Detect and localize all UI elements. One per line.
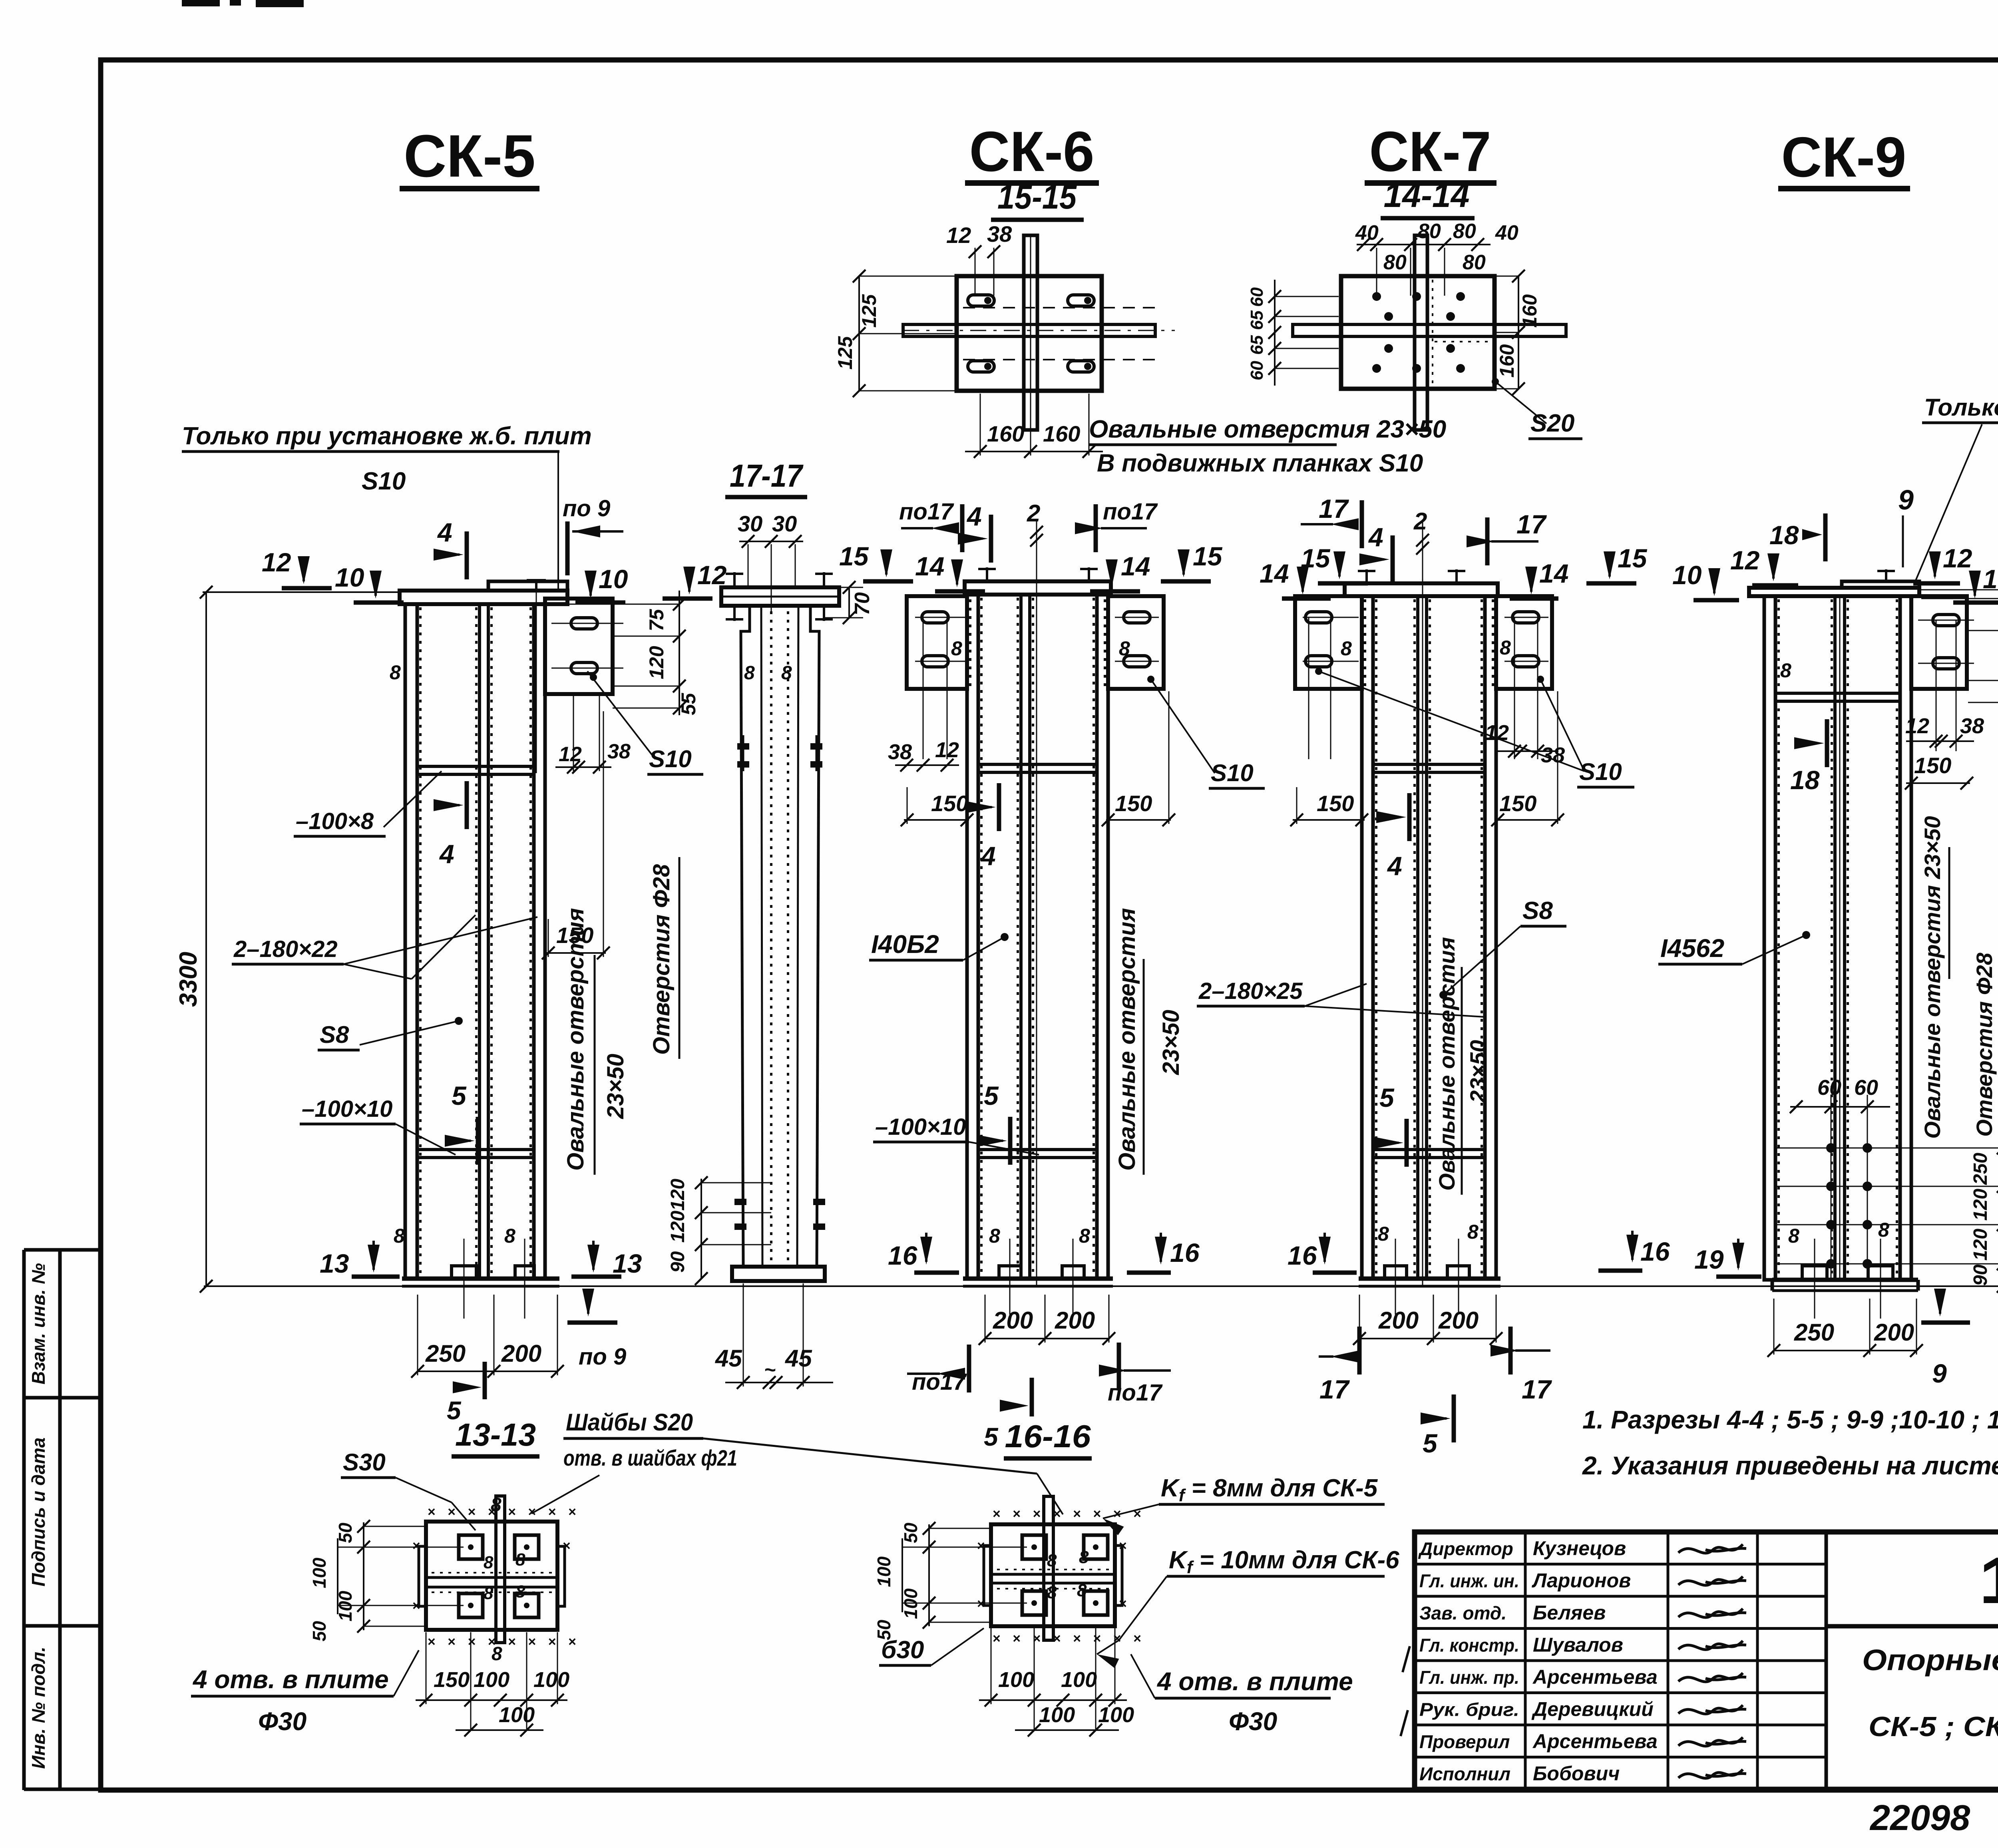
svg-text:Инв. № подл.: Инв. № подл. — [28, 1647, 49, 1769]
SK-7 cap bolts — [1365, 569, 1368, 583]
svg-text:Опорные стойки: Опорные стойки — [1862, 1643, 1998, 1677]
SK-5 bottom dim 250 200 — [418, 1371, 557, 1372]
SK-6 stiffener bottom — [978, 1150, 1097, 1158]
svg-text:12: 12 — [1730, 545, 1760, 575]
15-15 slotted holes — [968, 295, 994, 306]
svg-text:8: 8 — [484, 1553, 494, 1572]
svg-text:10: 10 — [599, 564, 628, 594]
svg-text:~: ~ — [764, 1359, 776, 1381]
svg-text:30: 30 — [772, 511, 797, 536]
svg-text:S30: S30 — [343, 1449, 386, 1476]
svg-text:Овальные отверстия: Овальные отверстия — [563, 908, 589, 1171]
svg-text:4: 4 — [1387, 851, 1402, 881]
svg-text:18: 18 — [1769, 520, 1799, 550]
svg-text:S20: S20 — [1530, 410, 1574, 437]
svg-text:120: 120 — [645, 646, 668, 679]
SK-6 bottom dim 200 200 — [985, 1338, 1109, 1339]
svg-text:Беляев: Беляев — [1533, 1601, 1606, 1624]
svg-text:Отверстия Ф28: Отверстия Ф28 — [649, 864, 675, 1055]
svg-text:1. Разрезы 4-4 ; 5-5 ; 9-9 ;: 1. Разрезы 4-4 ; 5-5 ; 9-9 ;10-10 ; 12-1… — [1582, 1405, 1998, 1434]
svg-text:Шувалов: Шувалов — [1533, 1634, 1623, 1656]
svg-text:4: 4 — [437, 517, 452, 547]
SK-9 lower bolt grid lines — [1831, 1095, 1832, 1279]
svg-text:СК-5: СК-5 — [404, 122, 535, 189]
svg-text:200: 200 — [1438, 1307, 1479, 1334]
svg-text:5: 5 — [984, 1081, 999, 1110]
svg-text:отв. в шайбах ф21: отв. в шайбах ф21 — [563, 1445, 737, 1470]
svg-text:8: 8 — [1878, 1219, 1889, 1241]
svg-text:4: 4 — [980, 841, 996, 871]
svg-text:8: 8 — [1788, 1225, 1799, 1247]
16-16 vertical bar — [1044, 1496, 1053, 1640]
svg-text:100: 100 — [533, 1668, 569, 1692]
svg-text:125: 125 — [858, 294, 880, 328]
svg-text:12: 12 — [935, 738, 959, 762]
svg-text:I40Б2: I40Б2 — [871, 930, 939, 959]
SK-6 cap bolts — [986, 567, 988, 581]
svg-text:Ларионов: Ларионов — [1532, 1570, 1631, 1592]
SK-6 left gusset slots — [922, 612, 948, 623]
svg-text:150: 150 — [1115, 791, 1152, 816]
SK-9 gusset slots — [1933, 615, 1959, 626]
svg-text:Ф30: Ф30 — [1229, 1707, 1277, 1736]
17-17 top plate — [721, 587, 839, 606]
15-15 dim 125 125 left — [858, 276, 860, 391]
svg-text:8: 8 — [989, 1225, 1000, 1247]
svg-text:38: 38 — [888, 740, 912, 764]
SK-5 datum extension top — [203, 591, 400, 593]
SK-9 right flange — [1900, 596, 1911, 1280]
SK-7 left gusset — [1295, 596, 1362, 689]
SK-6 left flange — [967, 595, 978, 1279]
svg-text:Овальные отверстия: Овальные отверстия — [1434, 937, 1459, 1191]
svg-text:4: 4 — [439, 839, 454, 869]
SK-7 right gusset slots — [1512, 612, 1539, 623]
svg-text:12: 12 — [1943, 543, 1972, 573]
svg-text:×: × — [412, 1538, 420, 1554]
SK-9 bottom dim 250 200 — [1774, 1350, 1916, 1351]
SK-7 marker 5 — [1405, 1119, 1409, 1167]
14-14 right dim 160 160 — [1518, 276, 1519, 389]
svg-text:4 отв. в плите: 4 отв. в плите — [192, 1665, 389, 1694]
svg-text:2–180×25: 2–180×25 — [1198, 978, 1303, 1004]
svg-text:45: 45 — [785, 1345, 812, 1372]
SK-7 marker 4 mid — [1407, 793, 1412, 841]
svg-text:16: 16 — [888, 1241, 918, 1270]
svg-text:12: 12 — [1905, 714, 1929, 738]
13-13 side bars — [419, 1546, 426, 1606]
svg-text:50: 50 — [309, 1621, 330, 1641]
15-15 dashed tie lines — [963, 307, 1155, 308]
svg-text:125: 125 — [834, 336, 856, 370]
svg-text:Только при установке ж.б. пли: Только при установке ж.б. плит — [182, 422, 592, 450]
15-15 plate — [957, 276, 1102, 391]
SK-5 marker 5 bottom — [483, 1362, 487, 1399]
SK-6 serrations — [980, 598, 983, 1277]
svg-text:Только при установке ж.б. пл: Только при установке ж.б. плит — [1924, 394, 1998, 421]
svg-text:Проверил: Проверил — [1419, 1731, 1510, 1752]
16-16 plate — [991, 1524, 1115, 1626]
13-13 left dims — [363, 1522, 364, 1630]
SK-5 marker 5 — [476, 1117, 480, 1165]
svg-text:100: 100 — [474, 1668, 509, 1692]
svg-text:Рук. бриг.: Рук. бриг. — [1419, 1699, 1519, 1720]
svg-text:Зав. отд.: Зав. отд. — [1419, 1603, 1506, 1623]
svg-text:3300: 3300 — [175, 952, 202, 1007]
SK-7 cap plate — [1345, 583, 1498, 596]
svg-text:14: 14 — [1539, 559, 1568, 588]
svg-text:8: 8 — [390, 661, 401, 684]
svg-text:100: 100 — [874, 1556, 894, 1587]
SK-9 base plate — [1772, 1278, 1918, 1282]
svg-text:70: 70 — [851, 592, 874, 615]
svg-text:8: 8 — [1079, 1225, 1090, 1247]
SK-5 middle plate — [480, 604, 488, 1279]
SK-5 stiffener bottom — [417, 1150, 534, 1158]
SK-5 right flange — [534, 604, 545, 1279]
svg-text:8: 8 — [1077, 1581, 1087, 1600]
svg-text:16: 16 — [1288, 1241, 1317, 1270]
svg-text:8: 8 — [394, 1225, 405, 1247]
svg-text:Гл. инж. ин.: Гл. инж. ин. — [1419, 1571, 1519, 1591]
svg-text:СК-5 ; СК-6 ; СК-7 ; СК-9: СК-5 ; СК-6 ; СК-7 ; СК-9 — [1869, 1711, 1998, 1742]
SK-7 marker 4 top — [1391, 535, 1395, 583]
svg-text:Бобович: Бобович — [1533, 1762, 1620, 1785]
SK-6 base feet — [999, 1266, 1021, 1279]
svg-text:–100×8: –100×8 — [296, 808, 374, 834]
svg-text:S8: S8 — [320, 1021, 349, 1048]
svg-text:Kf = 8мм для СК-5: Kf = 8мм для СК-5 — [1161, 1474, 1378, 1505]
SK-5 marker po 9 bottom — [582, 1289, 594, 1317]
svg-text:Взам. инв. №: Взам. инв. № — [28, 1263, 49, 1385]
svg-text:150: 150 — [434, 1668, 470, 1692]
svg-text:Деревицкий: Деревицкий — [1531, 1698, 1654, 1721]
17-17 dim 45 45 bottom — [725, 1382, 833, 1383]
svg-text:160: 160 — [1496, 344, 1518, 378]
svg-text:30: 30 — [738, 511, 762, 536]
SK-5 anchor bolt mark — [535, 579, 537, 591]
SK-5 dim 3300 vertical — [205, 592, 207, 1286]
14-14 top dims 40 80 80 40 — [1357, 244, 1491, 245]
15-15 dim 160 160 bottom — [965, 451, 1103, 452]
svg-text:Подпись и дата: Подпись и дата — [28, 1438, 49, 1587]
SK-9 cap plate — [1749, 588, 1919, 596]
svg-text:100: 100 — [1061, 1668, 1097, 1692]
svg-text:8: 8 — [515, 1582, 525, 1601]
left margin strip — [22, 1250, 26, 1790]
SK-6 right gusset — [1108, 596, 1164, 689]
svg-text:S10: S10 — [362, 467, 406, 495]
SK-7 web — [1418, 596, 1427, 1279]
svg-text:× × × × × × × ×: × × × × × × × × — [993, 1631, 1145, 1646]
svg-text:S10: S10 — [1579, 758, 1622, 785]
SK-7 stiffener top — [1373, 764, 1485, 772]
svg-text:120: 120 — [667, 1179, 689, 1211]
svg-text:Исполнил: Исполнил — [1419, 1764, 1510, 1784]
SK-7 right flange — [1485, 596, 1496, 1279]
svg-text:2–180×22: 2–180×22 — [233, 936, 338, 962]
16-16 left dims — [928, 1524, 930, 1626]
svg-text:17: 17 — [1319, 1375, 1350, 1404]
svg-text:14: 14 — [915, 551, 944, 581]
svg-text:80: 80 — [1418, 220, 1441, 243]
svg-text:8: 8 — [744, 662, 755, 684]
svg-text:Директор: Директор — [1418, 1538, 1513, 1559]
svg-text:250: 250 — [425, 1340, 466, 1367]
17-17 mid connection — [737, 743, 749, 750]
svg-text:8: 8 — [491, 1494, 501, 1516]
SK-9 marker 9 bottom — [1934, 1289, 1946, 1317]
svg-text:8: 8 — [1079, 1548, 1089, 1567]
svg-text:17: 17 — [1522, 1375, 1552, 1404]
svg-text:15: 15 — [839, 541, 869, 571]
SK-7 base feet — [1385, 1266, 1407, 1279]
13-13 bottom dims 150 100 100 — [416, 1699, 567, 1701]
svg-text:16-16: 16-16 — [1005, 1418, 1091, 1454]
svg-text:150: 150 — [1499, 791, 1536, 816]
svg-text:8: 8 — [1341, 637, 1352, 660]
svg-text:17: 17 — [1516, 509, 1547, 539]
14-14 bolt dots — [1372, 292, 1381, 301]
14-14 horizontal rod — [1293, 324, 1566, 336]
svg-text:13-13: 13-13 — [455, 1417, 536, 1452]
svg-text:60: 60 — [1247, 361, 1267, 380]
17-17 bolts on plate — [733, 572, 736, 587]
svg-text:4 отв. в плите: 4 отв. в плите — [1156, 1667, 1353, 1696]
svg-text:80: 80 — [1453, 220, 1476, 243]
svg-text:13: 13 — [613, 1249, 642, 1278]
staff slash marks — [1403, 1646, 1410, 1672]
13-13 mid band — [426, 1576, 557, 1579]
svg-text:80: 80 — [1463, 251, 1486, 274]
svg-text:160: 160 — [1518, 294, 1541, 328]
svg-text:60: 60 — [1854, 1076, 1878, 1100]
16-16 washers — [1022, 1535, 1046, 1559]
svg-text:200: 200 — [501, 1340, 541, 1367]
SK-6 stiffener top — [978, 764, 1097, 772]
svg-text:23×50: 23×50 — [603, 1054, 629, 1119]
svg-text:200: 200 — [1055, 1307, 1095, 1334]
svg-text:×: × — [563, 1538, 571, 1554]
svg-text:В подвижных планках S10: В подвижных планках S10 — [1097, 450, 1423, 477]
SK-5 gusset dim 75 120 55 — [679, 591, 680, 715]
svg-text:× × × × × × × ×: × × × × × × × × — [428, 1504, 580, 1520]
svg-text:15: 15 — [1618, 543, 1648, 573]
svg-text:120: 120 — [667, 1211, 689, 1243]
svg-text:50: 50 — [900, 1522, 921, 1543]
svg-text:150: 150 — [931, 791, 968, 816]
svg-text:250: 250 — [1794, 1319, 1834, 1346]
SK-5 gusset slots — [571, 618, 597, 629]
16-16 side bars — [984, 1546, 991, 1605]
svg-text:×: × — [977, 1538, 985, 1554]
svg-text:16: 16 — [1640, 1237, 1670, 1266]
SK-9 lower bolt dots — [1826, 1143, 1836, 1153]
16-16 mid band — [991, 1573, 1115, 1576]
svg-text:9: 9 — [1932, 1359, 1947, 1388]
svg-text:80: 80 — [1383, 251, 1407, 274]
SK-5 serrations — [419, 607, 422, 1277]
svg-text:8: 8 — [515, 1550, 525, 1570]
svg-text:38: 38 — [607, 740, 631, 763]
svg-text:5: 5 — [984, 1422, 999, 1451]
svg-text:Арсентьева: Арсентьева — [1532, 1666, 1658, 1688]
svg-text:38: 38 — [987, 221, 1012, 247]
svg-text:9: 9 — [1898, 484, 1914, 515]
svg-text:Ф30: Ф30 — [258, 1707, 306, 1736]
svg-text:по17: по17 — [899, 499, 954, 525]
13-13 washers — [459, 1535, 483, 1559]
SK-7 left gusset slots — [1305, 612, 1332, 623]
17-17 dims 120 120 90 right — [700, 1179, 702, 1279]
svg-text:по 9: по 9 — [579, 1344, 626, 1370]
svg-text:S10: S10 — [1211, 760, 1254, 786]
svg-text:12: 12 — [946, 223, 971, 248]
17-17 base plate — [732, 1267, 825, 1281]
svg-text:100: 100 — [1039, 1703, 1075, 1727]
SK-9 serrations — [1777, 599, 1780, 1277]
svg-text:18: 18 — [1790, 765, 1820, 795]
svg-text:100: 100 — [1098, 1703, 1134, 1727]
SK-9 gusset plate — [1911, 596, 1967, 689]
13-13 plate — [426, 1522, 557, 1630]
svg-text:по17: по17 — [1108, 1380, 1163, 1406]
svg-text:65: 65 — [1247, 335, 1267, 355]
15-15 web bar vertical — [1024, 235, 1037, 430]
svg-text:S8: S8 — [1522, 897, 1553, 925]
SK-5 cap upper plate — [488, 581, 567, 591]
17-17 dim 70 right — [848, 587, 850, 618]
svg-text:14-14: 14-14 — [1384, 177, 1470, 215]
svg-text:40: 40 — [1495, 221, 1518, 245]
svg-text:СК-9: СК-9 — [1781, 125, 1906, 189]
SK-7 bottom dim 200 200 — [1359, 1338, 1496, 1339]
14-14 left dims 60 65 65 60 — [1274, 280, 1276, 386]
svg-text:12: 12 — [697, 560, 727, 590]
svg-text:38: 38 — [1960, 714, 1984, 738]
svg-text:120: 120 — [1970, 1229, 1991, 1261]
svg-text:4: 4 — [1368, 522, 1383, 552]
SK-6 marker 5 — [1008, 1117, 1013, 1165]
svg-text:Гл. инж. пр.: Гл. инж. пр. — [1419, 1667, 1519, 1688]
SK-6 base line — [963, 1277, 1113, 1281]
13-13 vertical bar — [496, 1496, 505, 1643]
17-17 column body — [741, 606, 750, 1266]
svg-text:8: 8 — [1780, 659, 1791, 682]
SK-5 gusset plate S10 — [545, 599, 613, 694]
svg-text:14: 14 — [1260, 559, 1289, 588]
svg-text:5: 5 — [1423, 1428, 1438, 1458]
svg-text:17-17: 17-17 — [730, 458, 804, 493]
svg-text:55: 55 — [677, 692, 700, 715]
svg-text:–100×10: –100×10 — [302, 1096, 392, 1122]
svg-text:90: 90 — [667, 1251, 689, 1273]
SK-5 base line — [402, 1277, 559, 1281]
svg-text:б30: б30 — [881, 1636, 924, 1664]
svg-text:17: 17 — [1319, 494, 1349, 523]
SK-6 left gusset — [907, 596, 967, 689]
SK-7 stiffener bottom — [1373, 1150, 1485, 1158]
SK-6 right flange — [1097, 595, 1108, 1279]
svg-text:8: 8 — [1047, 1551, 1057, 1570]
svg-text:×: × — [1119, 1596, 1127, 1611]
17-17 center serration — [770, 611, 772, 1263]
SK-9 cap upper plate — [1842, 581, 1919, 588]
svg-text:16: 16 — [1170, 1238, 1200, 1267]
svg-text:200: 200 — [993, 1307, 1033, 1334]
svg-text:100: 100 — [998, 1668, 1034, 1692]
svg-text:8: 8 — [951, 637, 962, 660]
svg-text:2. Указания приведены на ли: 2. Указания приведены на листе 74 — [1582, 1451, 1998, 1480]
svg-text:12: 12 — [262, 547, 291, 577]
SK-5 marker 4 top — [465, 531, 469, 579]
svg-text:8: 8 — [1047, 1583, 1057, 1602]
svg-text:Кузнецов: Кузнецов — [1533, 1537, 1626, 1560]
svg-text:Шайбы S20: Шайбы S20 — [566, 1409, 693, 1436]
svg-text:40: 40 — [1355, 221, 1379, 245]
svg-text:8: 8 — [504, 1225, 515, 1247]
svg-text:100: 100 — [499, 1703, 535, 1727]
SK-7 base line — [1359, 1277, 1500, 1281]
svg-text:100: 100 — [309, 1558, 330, 1588]
svg-text:15-15: 15-15 — [997, 178, 1077, 216]
SK-7 centerline — [1422, 519, 1423, 1286]
16-16 bottom dims 100 100 — [979, 1699, 1127, 1701]
svg-text:160: 160 — [1043, 421, 1080, 446]
svg-text:4: 4 — [966, 501, 982, 531]
svg-text:120: 120 — [1970, 1189, 1991, 1221]
staff signatures — [1678, 1544, 1746, 1553]
svg-text:10: 10 — [1672, 560, 1702, 590]
svg-text:–100×10: –100×10 — [875, 1114, 966, 1140]
svg-text:10: 10 — [335, 563, 364, 592]
svg-text:23×50: 23×50 — [1158, 1010, 1184, 1075]
svg-text:8: 8 — [781, 662, 792, 684]
svg-text:Арсентьева: Арсентьева — [1532, 1730, 1658, 1753]
svg-text:10: 10 — [1983, 564, 1998, 594]
svg-text:5: 5 — [1379, 1083, 1395, 1112]
SK-6 marker 5 bottom — [1030, 1378, 1034, 1416]
svg-text:8: 8 — [1467, 1221, 1479, 1243]
SK-6 marker 4 mid — [997, 783, 1001, 831]
svg-text:2: 2 — [1413, 508, 1427, 535]
svg-text:13: 13 — [320, 1249, 349, 1278]
svg-text:150: 150 — [1914, 753, 1951, 778]
svg-text:8: 8 — [492, 1643, 502, 1665]
17-17 dim 30 30 top — [739, 541, 803, 542]
13-13 dim 100 lower — [456, 1729, 543, 1731]
svg-text:Гл. констр.: Гл. констр. — [1419, 1635, 1519, 1656]
svg-text:8: 8 — [1378, 1223, 1389, 1245]
14-14 web bar vertical — [1415, 235, 1427, 430]
svg-text:200: 200 — [1874, 1319, 1914, 1346]
svg-text:Отверстия Ф28: Отверстия Ф28 — [1972, 952, 1997, 1137]
svg-text:60: 60 — [1247, 287, 1267, 307]
SK-7 serrations — [1375, 599, 1377, 1277]
svg-text:38: 38 — [1541, 743, 1565, 767]
svg-text:Овальные отверстия 23×50: Овальные отверстия 23×50 — [1920, 816, 1945, 1139]
SK-6 right gusset slots — [1124, 612, 1150, 623]
svg-text:по 9: по 9 — [563, 495, 610, 521]
svg-text:60: 60 — [1817, 1076, 1841, 1100]
svg-text:19: 19 — [1694, 1245, 1724, 1274]
SK-7 right gusset — [1496, 596, 1552, 689]
svg-text:22098: 22098 — [1869, 1798, 1970, 1838]
svg-text:по17: по17 — [1103, 499, 1158, 525]
svg-text:50: 50 — [335, 1522, 356, 1543]
leader to cap SK-9 — [1914, 424, 1982, 584]
svg-text:5: 5 — [452, 1081, 467, 1110]
